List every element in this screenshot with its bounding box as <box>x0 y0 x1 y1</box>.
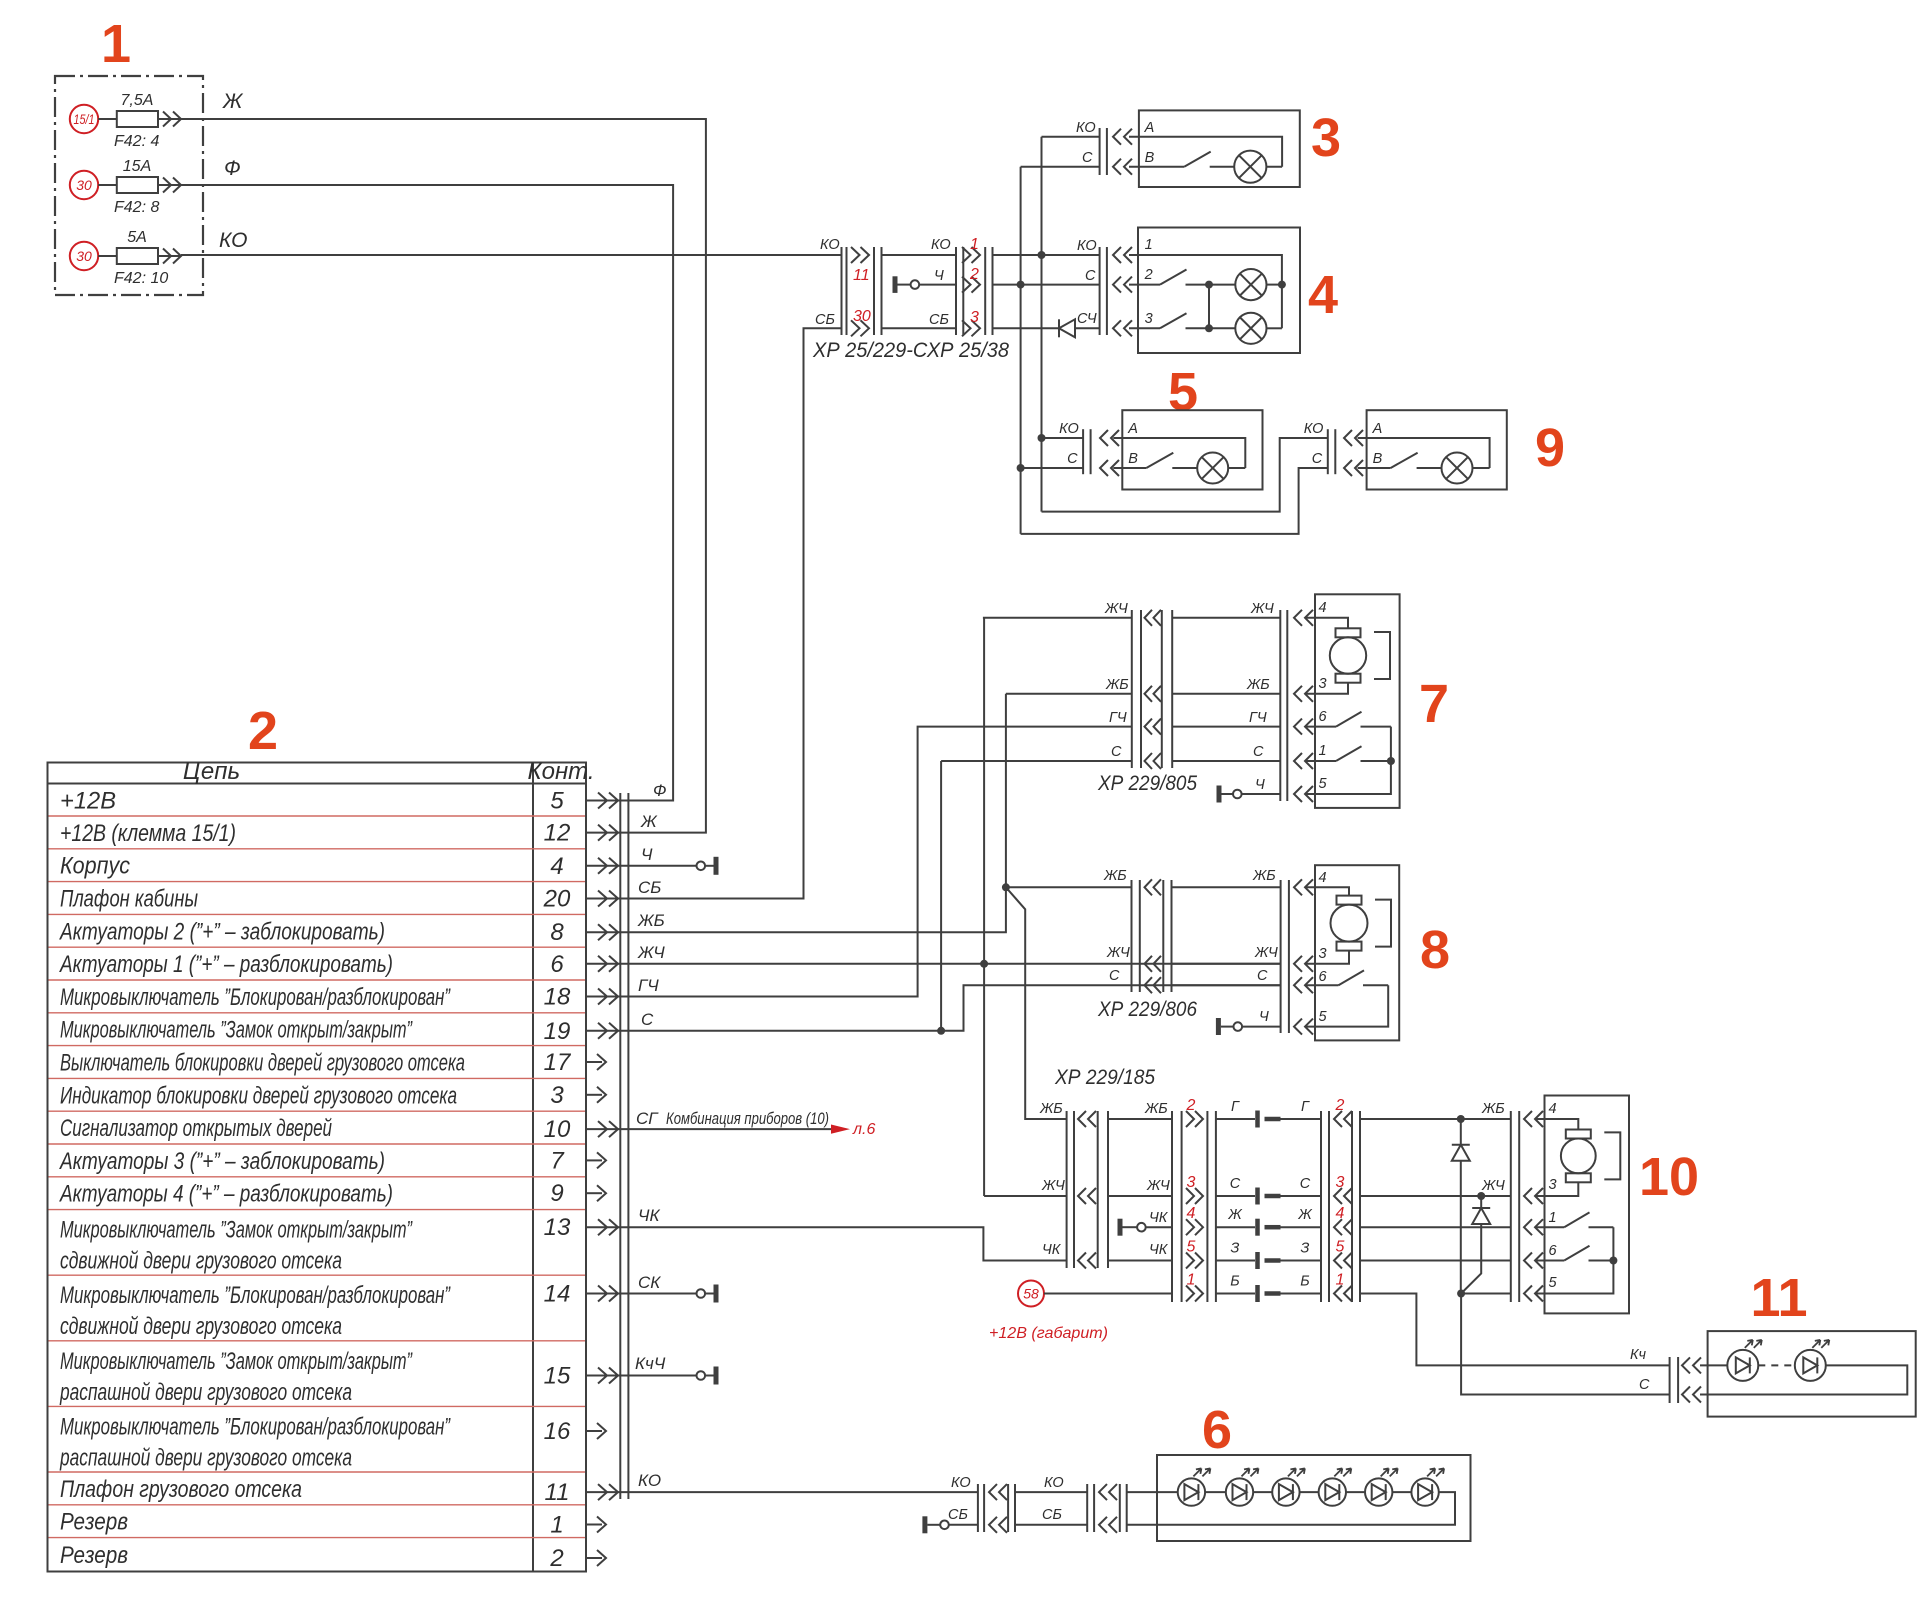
wire ЖЧ to connector ХР 229/185 <box>984 1195 1067 1197</box>
table row pin 19 <box>60 1017 632 1045</box>
svg-text:А: А <box>1127 421 1138 437</box>
actuator 7 box <box>1315 594 1400 808</box>
svg-text:9: 9 <box>1535 418 1565 478</box>
svg-text:ЖЧ: ЖЧ <box>1106 945 1130 961</box>
row separator <box>49 1274 586 1276</box>
svg-text:1: 1 <box>1336 1272 1345 1289</box>
svg-text:10: 10 <box>1639 1147 1699 1207</box>
svg-text:11: 11 <box>545 1479 570 1506</box>
svg-text:1: 1 <box>550 1512 563 1539</box>
svg-text:Ж: Ж <box>1227 1207 1242 1223</box>
wire to actuator 10 pin 5 <box>1457 1290 1511 1298</box>
svg-text:1: 1 <box>970 236 979 253</box>
connector ХР 229/185 (harness side) <box>1172 1097 1216 1302</box>
svg-text:С: С <box>1109 968 1120 984</box>
svg-text:2: 2 <box>1335 1097 1345 1114</box>
row separator <box>49 1045 586 1047</box>
svg-text:Актуаторы 2 (”+” – заблокиров: Актуаторы 2 (”+” – заблокировать) <box>58 918 385 945</box>
svg-text:сдвижной двери грузового отсек: сдвижной двери грузового отсека <box>60 1313 342 1340</box>
svg-text:3: 3 <box>1145 311 1153 327</box>
row separator <box>49 1143 586 1145</box>
lamp unit 3 switch <box>1129 152 1234 167</box>
svg-text:20: 20 <box>543 886 571 913</box>
svg-text:3: 3 <box>1319 946 1327 962</box>
svg-text:2: 2 <box>969 266 979 283</box>
svg-text:СБ: СБ <box>1042 1507 1062 1523</box>
svg-text:Выключатель блокировки дверей: Выключатель блокировки дверей грузового … <box>60 1050 465 1077</box>
row separator <box>49 1110 586 1112</box>
svg-text:ЧК: ЧК <box>638 1206 660 1225</box>
wire З to actuator 10 pin 6 <box>1360 1260 1511 1262</box>
wire ЖБ to actuator 8 <box>1006 886 1132 888</box>
svg-text:Б: Б <box>1230 1274 1239 1290</box>
lamp EK4a <box>1205 269 1286 300</box>
svg-text:В: В <box>1128 451 1138 467</box>
svg-text:5: 5 <box>1549 1275 1558 1291</box>
row separator <box>49 815 586 817</box>
svg-text:Микровыключатель ”Замок открыт: Микровыключатель ”Замок открыт/закрыт” <box>60 1217 413 1244</box>
lamp unit 4 switch 3 <box>1129 313 1209 328</box>
lamp unit 9 pin A wire <box>1358 438 1490 468</box>
svg-text:30: 30 <box>76 248 92 264</box>
svg-text:14: 14 <box>544 1281 571 1308</box>
table row pin 15 <box>59 1348 632 1406</box>
lamp unit 5 switch <box>1113 453 1197 468</box>
svg-text:С: С <box>1300 1176 1311 1192</box>
svg-text:КО: КО <box>951 1475 971 1491</box>
row separator <box>49 1471 586 1473</box>
svg-text:КО: КО <box>931 237 951 253</box>
wire ЖБ to actuator 7 <box>1006 693 1132 695</box>
lamp EK4b <box>1205 285 1282 344</box>
table row pin 11 <box>60 1476 632 1506</box>
cargo lamp feed wire <box>1127 1491 1178 1493</box>
svg-text:3: 3 <box>1187 1174 1196 1191</box>
svg-text:ХР 229/805: ХР 229/805 <box>1097 772 1197 795</box>
corpus contact on wire Ч of actuator 7 <box>1219 786 1280 803</box>
svg-text:Ч: Ч <box>934 268 944 284</box>
svg-text:СК: СК <box>638 1273 661 1292</box>
actuator 7 microswitch pin 6 <box>1305 712 1391 727</box>
svg-text:4: 4 <box>1336 1205 1345 1222</box>
table row pin 4 <box>60 853 632 880</box>
svg-text:2: 2 <box>1186 1097 1196 1114</box>
svg-text:Кч: Кч <box>1630 1347 1647 1363</box>
svg-text:ЖЧ: ЖЧ <box>1254 945 1278 961</box>
table frame <box>48 763 587 1572</box>
svg-text:Резерв: Резерв <box>60 1542 128 1569</box>
svg-text:15: 15 <box>544 1363 571 1390</box>
svg-text:Микровыключатель ”Замок открыт: Микровыключатель ”Замок открыт/закрыт” <box>60 1017 413 1044</box>
svg-text:1: 1 <box>101 14 131 74</box>
svg-text:5А: 5А <box>127 229 147 246</box>
lamp EK5 <box>1197 453 1245 484</box>
cargo lamp connector 2 <box>1087 1484 1127 1533</box>
svg-text:6: 6 <box>550 951 564 978</box>
lamp 11 return wire <box>1700 1365 1907 1394</box>
wire Кч to licence plate lamps <box>1360 1294 1670 1366</box>
wire С return from lamps 11 <box>1461 1294 1670 1395</box>
svg-text:Ж: Ж <box>640 812 658 831</box>
svg-text:ЖБ: ЖБ <box>637 911 665 930</box>
actuator 8 motor <box>1305 887 1391 964</box>
svg-text:КО: КО <box>638 1471 661 1490</box>
lamp unit 3 connector <box>1021 120 1132 175</box>
instrument cluster note <box>666 1109 875 1138</box>
svg-text:Ч: Ч <box>1255 777 1265 793</box>
wire СБ from connector down to table pin 20 <box>632 328 842 898</box>
row separator <box>49 913 586 915</box>
wire СК to corpus <box>632 1285 716 1303</box>
table row pin 1 <box>60 1509 606 1539</box>
svg-text:5: 5 <box>1319 1009 1328 1025</box>
svg-text:С: С <box>1257 968 1268 984</box>
lamp unit 4 switch 2 <box>1129 270 1209 285</box>
svg-text:F42: 10: F42: 10 <box>114 270 168 287</box>
fuse F42:4 7,5А (terminal 15/1) <box>70 92 181 150</box>
table row pin 18 <box>60 984 632 1011</box>
actuator 8 box <box>1315 865 1399 1040</box>
svg-text:КО: КО <box>820 237 840 253</box>
actuator 7 microswitch pin 1 <box>1305 746 1395 765</box>
row separator <box>49 1209 586 1211</box>
wire ЧК to connector ХР 229/185 <box>632 1227 1067 1260</box>
svg-text:ЖБ: ЖБ <box>1144 1101 1168 1117</box>
svg-text:10: 10 <box>544 1116 571 1143</box>
svg-text:КО: КО <box>1077 238 1097 254</box>
row separator <box>49 1012 586 1014</box>
wires between ХР 229/805 halves <box>1172 601 1280 793</box>
svg-text:6: 6 <box>1319 709 1328 725</box>
svg-text:С: С <box>1111 744 1122 760</box>
lamp unit 4 box <box>1138 228 1300 354</box>
wire Ж from fuse F42:4 to table pin 12 <box>181 90 706 833</box>
wire С to lamp unit 4 pin 2 <box>993 284 1100 286</box>
node С vertical bus <box>1017 167 1025 534</box>
actuator 7 connector <box>1280 610 1313 802</box>
connector block left (to harness) <box>1039 1101 1108 1269</box>
fuse F42:8 15А (terminal 30) <box>70 158 181 216</box>
lamp unit 3 box <box>1139 110 1300 187</box>
svg-text:15А: 15А <box>123 158 151 175</box>
svg-text:КО: КО <box>1044 1475 1064 1491</box>
lamp unit 9 switch <box>1358 453 1442 468</box>
svg-text:КчЧ: КчЧ <box>635 1354 666 1373</box>
svg-text:5: 5 <box>1336 1239 1345 1256</box>
svg-text:5: 5 <box>1319 776 1328 792</box>
svg-text:30: 30 <box>76 177 92 193</box>
wires into ХР 229/185 <box>1108 1101 1172 1261</box>
lamp EK9 <box>1442 453 1490 484</box>
svg-text:С: С <box>1067 451 1078 467</box>
actuator 7 common return to pin 5 <box>1305 727 1391 794</box>
wire ЖЧ bus <box>632 618 1281 1196</box>
svg-text:16: 16 <box>544 1418 571 1445</box>
connector junction 1 (ХР 25/229-С) <box>815 237 882 336</box>
svg-text:15/1: 15/1 <box>74 111 95 127</box>
svg-text:С: С <box>1230 1176 1241 1192</box>
svg-text:6: 6 <box>1549 1243 1558 1259</box>
svg-text:Б: Б <box>1300 1274 1309 1290</box>
table row pin 12 <box>60 820 632 847</box>
connector block right (to rear harness) <box>1321 1097 1360 1302</box>
wire ЖБ bus vertical <box>632 694 1010 932</box>
wire Ч to corpus <box>632 857 716 875</box>
svg-text:ЖЧ: ЖЧ <box>1481 1178 1505 1194</box>
svg-text:С: С <box>1639 1377 1650 1393</box>
svg-text:7: 7 <box>550 1147 565 1174</box>
svg-text:Микровыключатель ”Блокирован/р: Микровыключатель ”Блокирован/разблокиров… <box>60 984 451 1011</box>
wire КО between connector halves <box>882 254 957 256</box>
svg-text:1: 1 <box>1549 1210 1557 1226</box>
svg-text:ЖЧ: ЖЧ <box>1041 1178 1065 1194</box>
svg-text:Плафон кабины: Плафон кабины <box>60 886 198 913</box>
wire ЖЧ to actuator 7 <box>983 617 1132 619</box>
svg-text:2: 2 <box>549 1545 563 1572</box>
svg-text:А: А <box>1144 120 1155 136</box>
wire КчЧ to corpus <box>632 1367 716 1385</box>
cargo lamp connector 1 <box>948 1475 1015 1533</box>
bullet connectors <box>1216 1099 1321 1302</box>
row separator <box>49 1537 586 1539</box>
row separator <box>49 848 586 850</box>
svg-text:5: 5 <box>1168 362 1198 422</box>
svg-text:С: С <box>641 1010 654 1029</box>
svg-text:СБ: СБ <box>638 878 661 897</box>
svg-text:КО: КО <box>219 229 247 252</box>
svg-text:Цепь: Цепь <box>183 758 240 785</box>
connector X1 spine <box>619 793 621 1499</box>
svg-text:л.6: л.6 <box>852 1121 875 1138</box>
LED HL3 of strip 6 <box>1272 1468 1318 1505</box>
svg-text:Ф: Ф <box>224 157 241 180</box>
svg-text:18: 18 <box>544 984 571 1011</box>
svg-text:Ч: Ч <box>1259 1009 1269 1025</box>
lamp unit 3 pin A wire <box>1129 137 1282 167</box>
wire С bus to actuators 7 and 8 <box>632 761 1281 1035</box>
svg-text:Г: Г <box>1231 1099 1240 1115</box>
svg-text:ГЧ: ГЧ <box>1249 710 1267 726</box>
wire КО to lamp unit 4 pin 1 <box>993 254 1100 256</box>
svg-text:+12В (габарит): +12В (габарит) <box>989 1325 1108 1342</box>
svg-text:7,5А: 7,5А <box>121 92 154 109</box>
svg-text:распашной двери грузового отсе: распашной двери грузового отсека <box>59 1379 352 1406</box>
svg-text:Актуаторы 4 (”+” – разблокиро: Актуаторы 4 (”+” – разблокировать) <box>58 1181 393 1208</box>
svg-text:ЖБ: ЖБ <box>1039 1101 1063 1117</box>
svg-text:13: 13 <box>544 1214 571 1241</box>
wire ГЧ to actuator 7 <box>632 727 1132 997</box>
actuator 10 microswitch pin 6 <box>1535 1246 1617 1265</box>
connector ХР 229/806 <box>1103 868 1172 993</box>
connector ХР 229/805 <box>1104 601 1172 769</box>
wire СБ between connector halves <box>882 327 957 329</box>
connector junction 2 (ХР 25/38) <box>929 236 993 336</box>
svg-text:ЖБ: ЖБ <box>1481 1101 1505 1117</box>
cargo lamp strip return wire <box>1127 1492 1455 1525</box>
wire Ж to actuator 10 pin 1 <box>1360 1226 1511 1228</box>
wire СГ to instrument cluster <box>632 1109 832 1129</box>
svg-text:ХР 229/185: ХР 229/185 <box>1054 1066 1155 1089</box>
svg-text:F42: 4: F42: 4 <box>114 133 159 150</box>
lamp 11 connector <box>1630 1347 1701 1403</box>
svg-text:С: С <box>1253 744 1264 760</box>
wire КО from table pin 11 <box>632 1491 978 1493</box>
svg-text:КО: КО <box>1059 421 1079 437</box>
lamp 11 box <box>1708 1331 1916 1417</box>
svg-text:ГЧ: ГЧ <box>638 976 659 995</box>
svg-text:ЖБ: ЖБ <box>1246 677 1270 693</box>
svg-text:Комбинация приборов (10): Комбинация приборов (10) <box>666 1109 829 1128</box>
actuator 10 connector <box>1511 1111 1543 1302</box>
table row pin 8 <box>58 918 632 946</box>
lamp unit 5 pin A wire <box>1113 438 1245 468</box>
row separator <box>49 946 586 948</box>
row separator <box>49 1504 586 1506</box>
svg-text:ЖЧ: ЖЧ <box>637 943 665 962</box>
svg-text:Ч: Ч <box>641 845 653 864</box>
svg-text:4: 4 <box>1319 870 1327 886</box>
row separator <box>49 1176 586 1178</box>
wire КО from fuse F42:10 to connector ХР 25/229 <box>181 229 842 255</box>
svg-text:1: 1 <box>1145 237 1153 253</box>
svg-text:сдвижной двери грузового отсек: сдвижной двери грузового отсека <box>60 1248 342 1275</box>
svg-text:17: 17 <box>544 1049 572 1076</box>
svg-text:ЖБ: ЖБ <box>1105 677 1129 693</box>
svg-text:СБ: СБ <box>929 312 949 328</box>
actuator 10 common return to pin 5 <box>1535 1227 1613 1293</box>
svg-text:4: 4 <box>1319 600 1327 616</box>
svg-text:7: 7 <box>1419 674 1449 734</box>
table row pin 20 <box>60 886 632 913</box>
LED HL2 <box>1758 1340 1829 1381</box>
LED HL5 of strip 6 <box>1365 1468 1411 1505</box>
actuator 7 motor <box>1305 618 1390 694</box>
corpus contact on wire ЧК <box>1120 1210 1172 1236</box>
svg-text:ЖБ: ЖБ <box>1252 868 1276 884</box>
wires between cargo lamp connectors <box>1015 1475 1087 1525</box>
wire ЖБ to actuator 10 <box>1360 1101 1511 1123</box>
actuator 8 return to pin 5 <box>1305 985 1388 1026</box>
lamp unit 4 pin 1 wire <box>1129 255 1282 328</box>
svg-text:Сигнализатор открытых дверей: Сигнализатор открытых дверей <box>60 1115 332 1142</box>
svg-text:Корпус: Корпус <box>60 853 130 880</box>
corpus contact СБ <box>925 1516 978 1533</box>
LED HL1 <box>1700 1340 1762 1381</box>
svg-text:3: 3 <box>1311 108 1341 168</box>
svg-text:Г: Г <box>1301 1099 1310 1115</box>
table row pin 17 <box>60 1049 606 1077</box>
lamp unit 4 connector <box>1077 238 1132 336</box>
svg-text:ЖЧ: ЖЧ <box>1104 601 1128 617</box>
actuator 10 motor <box>1535 1119 1620 1196</box>
wire КО to lamp unit 9 <box>1042 438 1328 512</box>
svg-text:Микровыключатель ”Блокирован/р: Микровыключатель ”Блокирован/разблокиров… <box>60 1282 451 1309</box>
svg-text:ХР 229/806: ХР 229/806 <box>1097 998 1197 1021</box>
svg-text:Конт.: Конт. <box>527 758 594 785</box>
cargo lamp strip box <box>1157 1455 1471 1541</box>
svg-text:ГЧ: ГЧ <box>1109 710 1127 726</box>
svg-text:+12В: +12В <box>60 787 116 814</box>
svg-text:58: 58 <box>1023 1286 1039 1302</box>
svg-text:3: 3 <box>1549 1177 1557 1193</box>
svg-text:Плафон грузового отсека: Плафон грузового отсека <box>60 1476 302 1503</box>
svg-text:3: 3 <box>1319 676 1327 692</box>
actuator 8 microswitch pin 6 <box>1305 970 1388 985</box>
lamp EK3 <box>1234 151 1266 183</box>
lamp unit 5 box <box>1122 410 1262 489</box>
actuator 8 connector <box>1281 879 1313 1034</box>
corpus contact on wire Ч of actuator 8 <box>1218 1018 1280 1035</box>
wire СБ/СЧ with diode to lamp unit 4 pin 3 <box>993 327 1060 329</box>
table row pin 9 <box>58 1180 606 1208</box>
diode on wire СЧ <box>1059 319 1075 337</box>
table row pin 2 <box>60 1542 606 1572</box>
svg-text:1: 1 <box>1319 743 1327 759</box>
actuator 10 box <box>1545 1096 1630 1314</box>
wire Ф from fuse F42:8 to table pin 5 <box>181 157 673 801</box>
svg-text:С: С <box>1312 451 1323 467</box>
svg-text:ЧК: ЧК <box>1149 1242 1169 1258</box>
svg-text:5: 5 <box>550 788 564 815</box>
svg-text:З: З <box>1231 1241 1240 1257</box>
LED HL4 of strip 6 <box>1319 1468 1365 1505</box>
fuse box (dash-dot border) <box>55 76 203 295</box>
svg-text:Индикатор блокировки дверей гр: Индикатор блокировки дверей грузового от… <box>60 1082 457 1109</box>
table row pin 14 <box>60 1281 632 1341</box>
svg-text:5: 5 <box>1187 1239 1196 1256</box>
diode VD1 <box>1452 1119 1470 1294</box>
svg-text:С: С <box>1085 268 1096 284</box>
row separator <box>49 1077 586 1079</box>
wire КО to lamp unit 5 <box>1042 437 1084 439</box>
lamp unit 9 connector <box>1304 421 1363 476</box>
diode VD2 <box>1461 1196 1490 1294</box>
wire С to actuator 7 <box>941 760 1132 762</box>
svg-text:Ф: Ф <box>653 781 667 800</box>
svg-text:11: 11 <box>853 267 870 284</box>
fuse F42:10 5А (terminal 30) <box>70 229 181 287</box>
svg-text:6: 6 <box>1202 1400 1232 1460</box>
LED HL1 of strip 6 <box>1178 1468 1226 1505</box>
svg-text:4: 4 <box>1549 1101 1557 1117</box>
svg-text:4: 4 <box>550 853 563 880</box>
LED HL6 of strip 6 <box>1411 1468 1444 1505</box>
svg-text:СБ: СБ <box>948 1507 968 1523</box>
svg-text:СЧ: СЧ <box>1077 311 1097 327</box>
wires between ХР 229/806 halves <box>1172 868 1281 1025</box>
svg-text:30: 30 <box>853 308 871 325</box>
table row pin 16 <box>59 1413 606 1471</box>
svg-text:А: А <box>1372 421 1383 437</box>
table row pin 6 <box>58 951 632 978</box>
svg-text:В: В <box>1373 451 1383 467</box>
svg-text:12: 12 <box>544 820 571 847</box>
svg-text:8: 8 <box>550 919 564 946</box>
wire С to lamp unit 9 <box>1021 468 1328 534</box>
svg-text:распашной двери грузового отсе: распашной двери грузового отсека <box>59 1444 352 1471</box>
terminal 58 (+12V parking lights) <box>1018 1281 1172 1307</box>
table row pin 3 <box>60 1082 606 1110</box>
svg-text:4: 4 <box>1308 265 1338 325</box>
table row pin 7 <box>58 1147 606 1175</box>
svg-text:8: 8 <box>1420 920 1450 980</box>
svg-text:В: В <box>1145 150 1155 166</box>
svg-text:6: 6 <box>1319 969 1328 985</box>
svg-text:С: С <box>1082 150 1093 166</box>
svg-text:4: 4 <box>1187 1205 1196 1222</box>
svg-text:Актуаторы 3 (”+” – заблокиров: Актуаторы 3 (”+” – заблокировать) <box>58 1148 385 1175</box>
wire ЖЧ to actuator 10 <box>1360 1178 1511 1200</box>
